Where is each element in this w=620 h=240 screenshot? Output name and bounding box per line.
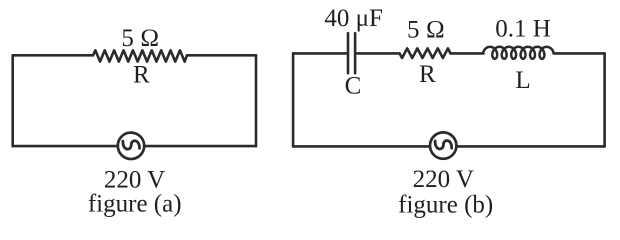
- svg-text:R: R: [133, 62, 150, 89]
- svg-text:220 V: 220 V: [104, 166, 165, 193]
- svg-text:5 Ω: 5 Ω: [121, 25, 159, 52]
- svg-text:figure (a): figure (a): [88, 191, 182, 218]
- wire: figure (a) top-right segment: [187, 54, 256, 57]
- AC source (figure b) circle: [430, 132, 456, 158]
- wire: figure (b) bottom-left segment: [293, 145, 430, 148]
- wire: figure (a) bottom-right segment: [144, 145, 256, 148]
- resistor R (figure a), 5 ohm: [93, 50, 187, 61]
- wire: figure (a) right vertical: [255, 55, 258, 146]
- wire: figure (b) left vertical: [292, 53, 295, 146]
- svg-text:40 μF: 40 μF: [324, 5, 383, 32]
- inductor L coil: [483, 47, 553, 59]
- wire: figure (b) bottom-right segment: [456, 145, 604, 148]
- svg-text:figure (b): figure (b): [398, 192, 493, 219]
- wire: inductor to right edge: [554, 52, 605, 55]
- wire: figure (b) top segment to capacitor: [293, 52, 347, 55]
- svg-text:0.1 H: 0.1 H: [495, 16, 551, 43]
- capacitor C plate left: [347, 33, 350, 73]
- wire: figure (b) right vertical: [603, 53, 606, 146]
- svg-text:5 Ω: 5 Ω: [407, 16, 445, 43]
- resistor R (figure b), 5 ohm: [400, 48, 451, 58]
- capacitor C plate right: [354, 33, 357, 73]
- wire: figure (a) top-left segment: [13, 54, 93, 57]
- svg-text:L: L: [515, 67, 530, 94]
- svg-text:C: C: [345, 73, 362, 100]
- AC source (figure b) sine wave: [435, 141, 452, 149]
- svg-text:220 V: 220 V: [413, 166, 474, 193]
- wire: figure (a) left vertical: [11, 55, 14, 146]
- wire: resistor to inductor: [451, 52, 484, 55]
- wire: figure (a) bottom-left segment: [13, 145, 118, 148]
- AC source (figure a) circle: [118, 133, 144, 159]
- svg-text:R: R: [419, 61, 436, 88]
- AC source (figure a) sine wave: [123, 141, 140, 149]
- wire: capacitor to resistor: [356, 52, 399, 55]
